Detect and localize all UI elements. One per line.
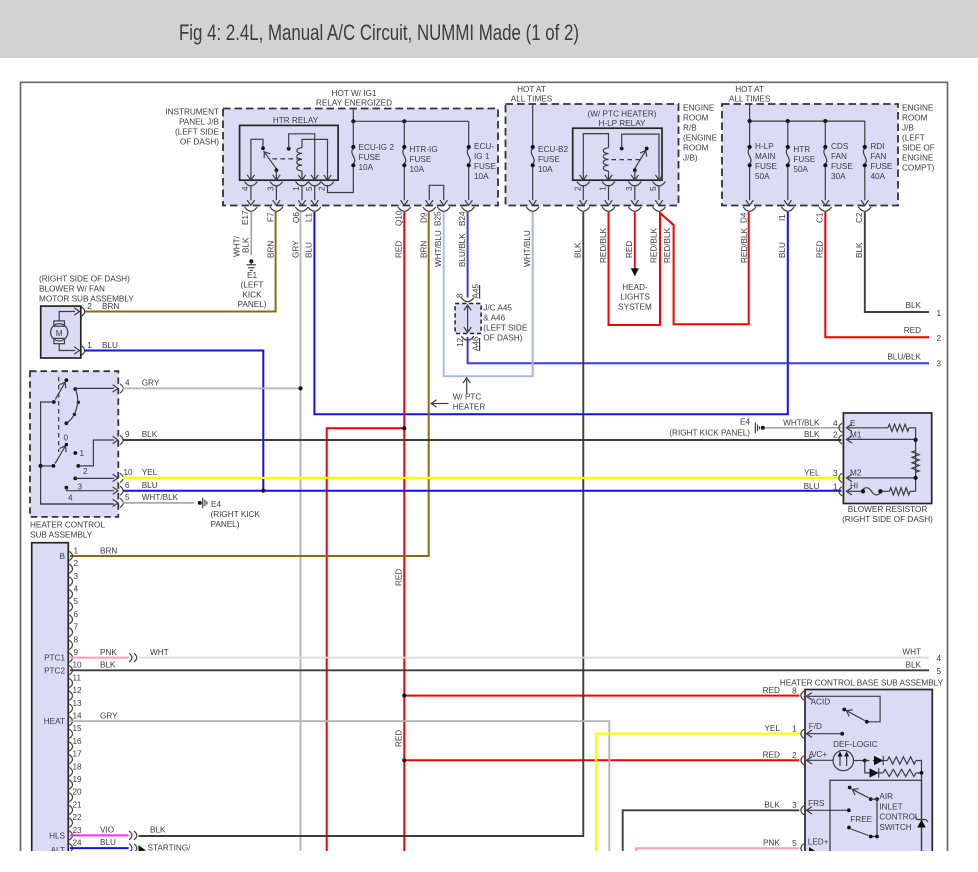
ground E4 left xyxy=(198,498,207,509)
wire B25 WHT/BLU loop xyxy=(444,212,533,376)
svg-text:GRY: GRY xyxy=(142,379,160,388)
svg-text:BLK: BLK xyxy=(764,801,780,810)
label motor pin2 BRN xyxy=(87,302,119,311)
svg-text:WHT/BLU: WHT/BLU xyxy=(523,230,532,267)
fuse CDS FAN xyxy=(819,121,832,211)
svg-text:9: 9 xyxy=(125,430,130,439)
svg-text:10A: 10A xyxy=(410,165,425,174)
svg-text:FREE: FREE xyxy=(850,815,872,824)
blower resistor pin cups xyxy=(839,423,852,496)
switch contact 3 wire to pin10 xyxy=(73,477,114,481)
switch contact 4 wire to pin6 xyxy=(65,486,115,491)
svg-text:L1: L1 xyxy=(305,212,314,222)
svg-text:RED/BLK: RED/BLK xyxy=(599,227,608,263)
switch upper arm xyxy=(52,378,69,404)
svg-text:(RIGHT KICK: (RIGHT KICK xyxy=(211,510,261,519)
label BLOWER RESISTOR xyxy=(842,505,933,524)
node bus feed box1 xyxy=(352,109,354,122)
svg-text:FUSE: FUSE xyxy=(755,162,777,171)
label pin6 BLU xyxy=(125,481,158,490)
node RED junction y428 xyxy=(402,426,406,430)
svg-text:HEAT: HEAT xyxy=(44,717,65,726)
wire bus to pin4 xyxy=(75,387,114,389)
relay H-LP mech link dashed xyxy=(612,159,642,161)
switch contact 1 xyxy=(73,451,77,455)
wire RED branch to A/C+ xyxy=(404,759,799,761)
svg-text:4: 4 xyxy=(937,654,942,663)
svg-text:BLK: BLK xyxy=(855,242,864,258)
label HEATER CONTROL SUB ASSEMBLY xyxy=(30,521,105,540)
svg-text:15: 15 xyxy=(73,724,83,733)
svg-text:HTR-IG: HTR-IG xyxy=(410,145,438,154)
svg-text:FUSE: FUSE xyxy=(359,153,381,162)
relay H-LP stems to box edge xyxy=(577,185,666,211)
label pin9 BLK xyxy=(125,430,158,439)
svg-text:(ENGINE: (ENGINE xyxy=(683,134,718,143)
engine room R/B box xyxy=(506,104,679,206)
svg-text:1: 1 xyxy=(937,309,942,318)
svg-text:ECU-IG 2: ECU-IG 2 xyxy=(359,143,395,152)
header bar xyxy=(0,0,978,58)
svg-text:HEATER: HEATER xyxy=(453,403,486,412)
label ECU-IG 1 FUSE 10A xyxy=(474,142,496,181)
pin ACID xyxy=(801,691,830,706)
label J/C A45 A46 xyxy=(483,304,528,343)
svg-text:5: 5 xyxy=(792,839,797,848)
svg-text:BLU/BLK: BLU/BLK xyxy=(887,352,921,361)
svg-text:D4: D4 xyxy=(740,212,749,223)
label CDS FAN FUSE 30A xyxy=(831,142,853,181)
svg-text:RED: RED xyxy=(395,241,404,258)
svg-text:5: 5 xyxy=(125,493,130,502)
wire RED branch to ACID xyxy=(404,695,799,697)
svg-text:E1: E1 xyxy=(247,271,257,280)
svg-text:HEATER CONTROL: HEATER CONTROL xyxy=(30,521,105,530)
wire pin4 GRY wire xyxy=(123,387,301,389)
label ECU-IG 2 FUSE 10A xyxy=(359,143,395,172)
bottom cutoff mask xyxy=(0,851,978,872)
svg-text:PNK: PNK xyxy=(100,648,117,657)
svg-text:PTC1: PTC1 xyxy=(44,654,65,663)
wire pin24 BLU wire xyxy=(70,847,129,849)
wire relay pin2 to fuse xyxy=(328,167,354,192)
svg-text:F/D: F/D xyxy=(809,722,822,731)
svg-text:(LEFT SIDE: (LEFT SIDE xyxy=(175,128,220,137)
heater strip box xyxy=(32,543,69,856)
wire A46 BLU/BLK lower xyxy=(468,337,929,363)
svg-text:D9: D9 xyxy=(419,212,428,223)
svg-text:E4: E4 xyxy=(740,418,750,427)
svg-text:HOT W/ IG1: HOT W/ IG1 xyxy=(332,89,377,98)
svg-text:BLU: BLU xyxy=(102,341,118,350)
svg-text:3: 3 xyxy=(625,186,634,191)
svg-text:M2: M2 xyxy=(850,468,862,477)
wire C2 BLK stub xyxy=(865,212,929,312)
svg-text:ACID: ACID xyxy=(811,697,831,706)
svg-text:1: 1 xyxy=(792,724,797,733)
svg-text:BLK: BLK xyxy=(906,301,922,310)
connector J/C cup 8 xyxy=(456,283,481,301)
svg-text:21: 21 xyxy=(73,800,83,809)
wire D9 BRN to heater pin1 xyxy=(70,212,429,556)
svg-text:W/ PTC: W/ PTC xyxy=(453,393,482,402)
svg-text:8: 8 xyxy=(792,686,797,695)
svg-text:F7: F7 xyxy=(267,212,276,222)
label E4 RIGHT KICK PANEL xyxy=(211,500,261,529)
svg-text:FUSE: FUSE xyxy=(871,162,893,171)
wire color labels top row xyxy=(233,227,865,267)
svg-text:R/B: R/B xyxy=(683,124,697,133)
J/B box1 exit cups xyxy=(245,207,475,211)
svg-text:3: 3 xyxy=(792,801,797,810)
wire pin9 PNK wire xyxy=(70,657,129,659)
svg-text:(LEFT: (LEFT xyxy=(902,134,925,143)
svg-text:BRN: BRN xyxy=(266,241,275,258)
label HTR FUSE 50A xyxy=(793,145,815,174)
motor wiring pins xyxy=(59,307,84,355)
label W/ PTC HEATER H-LP RELAY xyxy=(588,110,657,129)
svg-text:1: 1 xyxy=(833,482,838,491)
svg-text:4: 4 xyxy=(125,379,130,388)
label BLU 1 HI xyxy=(804,481,859,491)
switch contact 2 wire to pin9 xyxy=(76,440,114,468)
label pin23 VIO BLK xyxy=(100,825,166,834)
pin A/C+ xyxy=(801,750,828,765)
svg-text:RED: RED xyxy=(625,241,634,258)
svg-text:30A: 30A xyxy=(831,172,846,181)
air inlet switch arms xyxy=(847,786,879,839)
svg-text:H-LP: H-LP xyxy=(755,142,774,151)
svg-text:Q10: Q10 xyxy=(394,210,403,226)
relay HTR switch arm xyxy=(261,150,278,173)
svg-text:5: 5 xyxy=(649,186,658,191)
label PNK 5 LED+ xyxy=(763,839,797,848)
svg-text:4: 4 xyxy=(68,494,73,503)
svg-text:SIDE OF: SIDE OF xyxy=(902,144,935,153)
label pin4 GRY xyxy=(125,379,160,388)
svg-text:4: 4 xyxy=(241,186,250,191)
svg-text:6: 6 xyxy=(125,481,130,490)
note W/ PTC HEATER pointer xyxy=(431,378,485,412)
svg-text:(RIGHT KICK PANEL): (RIGHT KICK PANEL) xyxy=(669,428,750,437)
wire bus box1 xyxy=(353,120,468,122)
fuse RDI FAN xyxy=(858,121,871,211)
label RED 8 ACID xyxy=(763,686,797,695)
switch left bus xyxy=(39,402,115,504)
relay H-LP switch arm xyxy=(633,147,649,181)
svg-text:(RIGHT SIDE OF DASH): (RIGHT SIDE OF DASH) xyxy=(39,275,130,284)
svg-text:ROOM: ROOM xyxy=(683,144,709,153)
svg-text:E4: E4 xyxy=(211,500,221,509)
svg-text:DEF-LOGIC: DEF-LOGIC xyxy=(833,740,878,749)
wire RED branch to x327 xyxy=(327,428,405,856)
svg-text:WHT/BLU: WHT/BLU xyxy=(434,230,443,267)
svg-text:10A: 10A xyxy=(359,163,374,172)
svg-text:WHT: WHT xyxy=(902,648,921,657)
svg-text:BLK: BLK xyxy=(906,660,922,669)
svg-text:ENGINE: ENGINE xyxy=(902,104,934,113)
svg-text:(LEFT: (LEFT xyxy=(241,281,264,290)
svg-text:5: 5 xyxy=(937,667,942,676)
svg-text:10: 10 xyxy=(73,661,83,670)
svg-text:10A: 10A xyxy=(538,165,553,174)
svg-text:17: 17 xyxy=(73,750,83,759)
svg-text:M1: M1 xyxy=(850,431,862,440)
A/C+ diode rows xyxy=(854,756,924,855)
label blower motor assembly xyxy=(39,275,134,304)
relay H-LP pin numbers xyxy=(573,186,658,191)
svg-text:FUSE: FUSE xyxy=(474,162,496,171)
svg-text:C2: C2 xyxy=(855,212,864,223)
svg-text:2: 2 xyxy=(937,334,942,343)
svg-text:BLU: BLU xyxy=(100,838,116,847)
blower resistor box xyxy=(843,413,931,504)
resistor network xyxy=(848,424,919,495)
svg-text:22: 22 xyxy=(73,813,83,822)
svg-text:BLOWER W/ FAN: BLOWER W/ FAN xyxy=(39,285,105,294)
svg-text:2: 2 xyxy=(83,467,88,476)
node RED junction y696 xyxy=(402,694,406,698)
engine room J/B box xyxy=(722,104,898,206)
svg-text:C1: C1 xyxy=(815,212,824,223)
ACID switch xyxy=(807,696,880,723)
svg-text:7: 7 xyxy=(74,623,79,632)
svg-text:24: 24 xyxy=(73,839,83,848)
wire ECU-B2 WHT/BLU lower xyxy=(532,212,534,376)
svg-text:A46: A46 xyxy=(471,336,480,351)
svg-text:VIO: VIO xyxy=(100,825,114,834)
svg-text:RED: RED xyxy=(394,569,403,586)
label pin9 PNK WHT xyxy=(100,648,169,657)
svg-text:9: 9 xyxy=(74,648,79,657)
svg-text:10: 10 xyxy=(124,468,134,477)
svg-text:HI: HI xyxy=(850,481,858,490)
svg-text:MAIN: MAIN xyxy=(755,152,776,161)
label RED 2 A/C+ xyxy=(763,751,797,760)
wire H-LP pin2 BLK to HLS xyxy=(139,212,584,836)
relay HTR pin stems to J/B edge xyxy=(247,185,318,206)
label YEL 3 M2 xyxy=(804,468,862,478)
svg-text:B24: B24 xyxy=(458,211,467,226)
svg-text:13: 13 xyxy=(73,699,83,708)
svg-text:50A: 50A xyxy=(793,165,808,174)
splice pin9 xyxy=(129,653,132,662)
svg-text:12: 12 xyxy=(456,337,465,347)
svg-text:LED+: LED+ xyxy=(808,838,829,847)
label H-LP MAIN FUSE 50A xyxy=(755,142,777,181)
wire bus box3 xyxy=(748,103,865,123)
svg-text:ALL TIMES: ALL TIMES xyxy=(511,95,553,104)
splice pin23 xyxy=(129,831,132,840)
svg-text:2: 2 xyxy=(833,431,838,440)
svg-text:1: 1 xyxy=(599,186,608,191)
relay HTR pin arrows xyxy=(247,175,331,180)
svg-text:BLU: BLU xyxy=(804,482,820,491)
label WHT/BLK 4 E xyxy=(783,418,856,428)
ground E4 right xyxy=(755,423,765,434)
label BLK 1 right edge xyxy=(906,301,942,318)
svg-text:1: 1 xyxy=(74,546,79,555)
svg-text:50A: 50A xyxy=(755,172,770,181)
label HOT AT ALL TIMES box2 xyxy=(511,85,553,104)
svg-text:23: 23 xyxy=(73,826,83,835)
connector J/C cup 12 xyxy=(456,336,480,351)
wire pin10 YEL wire to M2 xyxy=(123,477,842,479)
relay HTR pin numbers xyxy=(241,186,327,191)
pin FRS xyxy=(801,799,851,815)
svg-text:4: 4 xyxy=(74,585,79,594)
svg-text:BLK: BLK xyxy=(241,237,250,253)
junction connector J/C A45 A46 box xyxy=(455,304,481,334)
svg-text:J/B): J/B) xyxy=(683,154,698,163)
svg-text:FAN: FAN xyxy=(871,152,887,161)
wire E4 WHT/BLK wire to E xyxy=(765,427,842,429)
wire F7 BRN to blower pin2 xyxy=(85,212,276,312)
svg-text:1: 1 xyxy=(87,341,92,350)
relay HTR coil xyxy=(297,139,328,180)
label pin10 YEL xyxy=(124,468,158,477)
svg-text:BLU: BLU xyxy=(778,242,787,258)
instrument panel J/B box xyxy=(223,109,498,206)
svg-text:ENGINE: ENGINE xyxy=(683,104,715,113)
svg-text:SWITCH: SWITCH xyxy=(879,823,911,832)
wire Q10 RED vertical xyxy=(403,212,405,856)
svg-text:HOT AT: HOT AT xyxy=(735,85,764,94)
svg-text:1: 1 xyxy=(80,449,85,458)
label HOT AT ALL TIMES box3 xyxy=(729,85,771,104)
svg-text:8: 8 xyxy=(74,635,79,644)
wire pin9 WHT wire xyxy=(140,657,930,659)
svg-text:6: 6 xyxy=(74,610,79,619)
wire E17 WHT/BLK xyxy=(250,212,252,255)
svg-text:CONTROL: CONTROL xyxy=(879,813,919,822)
svg-text:4: 4 xyxy=(833,419,838,428)
svg-text:WHT/BLK: WHT/BLK xyxy=(783,418,820,427)
svg-text:HOT AT: HOT AT xyxy=(517,85,546,94)
svg-text:E: E xyxy=(850,419,856,428)
label ENGINE ROOM J/B left side xyxy=(902,104,935,173)
fuse H-LP MAIN xyxy=(743,121,756,211)
svg-text:PTC2: PTC2 xyxy=(44,666,65,675)
svg-text:FUSE: FUSE xyxy=(538,155,560,164)
wire H-LP pin1-pin5 RED loop xyxy=(609,212,661,325)
svg-text:(RIGHT SIDE OF DASH): (RIGHT SIDE OF DASH) xyxy=(842,515,933,524)
svg-text:2: 2 xyxy=(318,186,327,191)
svg-text:I1: I1 xyxy=(778,214,787,221)
svg-text:ECU-B2: ECU-B2 xyxy=(538,145,568,154)
svg-text:BLU: BLU xyxy=(304,242,313,258)
svg-text:INLET: INLET xyxy=(879,802,902,811)
pin LED+ xyxy=(801,838,829,853)
svg-text:ENGINE: ENGINE xyxy=(902,154,934,163)
fuse ECU-IG 1 xyxy=(465,121,472,205)
heater control base box xyxy=(805,690,932,856)
svg-text:2: 2 xyxy=(573,186,582,191)
svg-text:FAN: FAN xyxy=(831,152,847,161)
label HOT W/ IG1 RELAY ENERGIZED xyxy=(316,89,392,108)
svg-text:M: M xyxy=(56,329,63,338)
svg-text:IG 1: IG 1 xyxy=(474,152,490,161)
svg-text:B: B xyxy=(60,552,66,561)
svg-text:RED/BLK: RED/BLK xyxy=(649,227,658,263)
svg-text:GRY: GRY xyxy=(291,240,300,258)
label E1 LEFT KICK PANEL xyxy=(238,271,267,309)
svg-text:E17: E17 xyxy=(241,210,250,225)
svg-text:RELAY ENERGIZED: RELAY ENERGIZED xyxy=(316,99,392,108)
blower motor box xyxy=(41,306,81,358)
svg-text:INSTRUMENT: INSTRUMENT xyxy=(165,108,219,117)
svg-text:B25: B25 xyxy=(434,211,443,226)
label ENGINE ROOM R/B xyxy=(683,104,718,163)
svg-text:RED: RED xyxy=(763,751,780,760)
ground E1 xyxy=(247,259,257,270)
svg-text:BRN: BRN xyxy=(102,302,119,311)
svg-text:CDS: CDS xyxy=(831,142,849,151)
svg-text:BLK: BLK xyxy=(804,430,820,439)
svg-text:3: 3 xyxy=(937,360,942,369)
svg-text:RED/BLK: RED/BLK xyxy=(740,227,749,263)
svg-text:HEATER CONTROL BASE SUB ASSEMB: HEATER CONTROL BASE SUB ASSEMBLY xyxy=(780,678,944,687)
svg-text:(LEFT SIDE: (LEFT SIDE xyxy=(483,324,528,333)
wire pin10 BLK wire xyxy=(70,669,929,671)
svg-text:BLOWER RESISTOR: BLOWER RESISTOR xyxy=(848,505,928,514)
svg-text:PANEL): PANEL) xyxy=(211,520,240,529)
svg-text:PANEL J/B: PANEL J/B xyxy=(179,118,220,127)
node GRY junction xyxy=(298,386,302,390)
wire motor BLU to pin6 line xyxy=(85,351,264,491)
svg-text:WHT: WHT xyxy=(150,648,169,657)
wire pin5 WHT/BLK wire xyxy=(123,502,195,504)
svg-text:FUSE: FUSE xyxy=(793,155,815,164)
label instrument panel J/B xyxy=(165,108,219,147)
node BLU junction motor xyxy=(261,489,265,493)
relay HTR contact pin4 branch xyxy=(251,139,265,180)
splice pin24 xyxy=(129,844,132,853)
svg-text:A45: A45 xyxy=(471,283,480,298)
relay HTR NO contact to pin5 xyxy=(287,134,315,180)
svg-text:PNK: PNK xyxy=(763,839,780,848)
fuse ECU-B2 xyxy=(526,103,539,211)
fuse HTR 50A xyxy=(781,121,794,211)
svg-text:3: 3 xyxy=(74,572,79,581)
label ECU-B2 FUSE 10A xyxy=(538,145,568,174)
svg-text:YEL: YEL xyxy=(764,724,780,733)
svg-text:5: 5 xyxy=(305,186,314,191)
svg-text:OF DASH): OF DASH) xyxy=(483,334,522,343)
svg-text:LIGHTS: LIGHTS xyxy=(620,293,650,302)
svg-text:PANEL): PANEL) xyxy=(238,300,267,309)
fuse ECU-IG 2 xyxy=(351,121,355,167)
svg-text:OF DASH): OF DASH) xyxy=(180,138,219,147)
svg-text:COMPT): COMPT) xyxy=(902,164,935,173)
svg-text:BLU/BLK: BLU/BLK xyxy=(458,233,467,267)
svg-text:GRY: GRY xyxy=(100,711,118,720)
wire pin9 BLK wire to M1 xyxy=(123,439,842,441)
svg-text:RED: RED xyxy=(763,686,780,695)
fuse HTR-IG xyxy=(401,121,408,205)
svg-text:WHT/: WHT/ xyxy=(233,235,242,257)
wire pin23 VIO wire xyxy=(70,834,129,836)
relay H-LP contact to pin5 xyxy=(620,134,659,180)
label pin5 WHT/BLK xyxy=(125,493,179,502)
svg-text:RDI: RDI xyxy=(871,142,885,151)
svg-text:RED: RED xyxy=(904,326,921,335)
svg-text:Fig 4: 2.4L, Manual A/C Circui: Fig 4: 2.4L, Manual A/C Circuit, NUMMI M… xyxy=(179,20,579,45)
svg-text:HEAD-: HEAD- xyxy=(622,283,648,292)
svg-text:A/C+: A/C+ xyxy=(809,750,828,759)
label RED 2 right edge xyxy=(904,326,942,343)
motor M symbol xyxy=(51,321,68,344)
